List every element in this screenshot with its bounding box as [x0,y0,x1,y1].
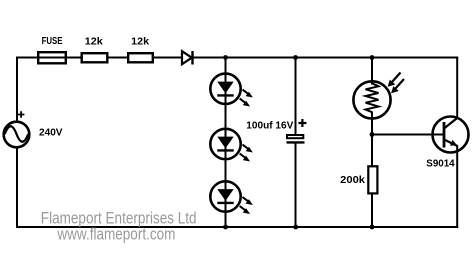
wire resistor to bottom rail [371,194,373,227]
svg-text:240V: 240V [39,128,63,139]
svg-text:www.flameport.com: www.flameport.com [57,225,176,244]
ac source V1 [4,122,30,148]
svg-text:12k: 12k [85,36,103,47]
wire LDR to resistor [371,112,373,167]
node dot bottom resistor branch [370,225,375,230]
svg-text:100uf 16V: 100uf 16V [246,121,293,132]
capacitor C1 [287,135,305,142]
node dot base junction [370,132,375,137]
wire base from junction to transistor [372,134,444,136]
wire LED branch vertical [225,58,227,228]
node dot bottom LED branch [223,225,228,230]
wire bottom rail [17,226,458,228]
transistor Q1 S9014 [433,117,469,153]
wire capacitor branch upper [295,58,297,135]
plus polarity mark at source [18,111,25,118]
wire top rail [17,57,458,59]
diode D1 [182,51,193,65]
svg-text:12k: 12k [131,36,149,47]
node dot top LDR branch [370,55,375,60]
fuse FUSE [38,52,66,63]
resistor R1 12k [82,53,108,62]
resistor R4 200k [368,166,377,193]
svg-text:S9014: S9014 [426,158,455,169]
wire emitter vertical [456,146,458,229]
wire collector vertical [456,57,458,119]
wire capacitor branch lower [295,142,297,227]
wire left vertical lower [16,149,18,229]
LED D4 [210,181,253,214]
plus polarity mark at capacitor [298,119,306,127]
LED D2 [210,74,253,107]
node dot top LED branch [223,55,228,60]
LED D3 [210,129,253,162]
wire left vertical upper [16,57,18,122]
svg-text:FUSE: FUSE [42,36,63,47]
svg-text:200k: 200k [340,175,365,186]
resistor R2 12k [128,53,153,62]
node dot bottom capacitor branch [293,225,298,230]
LDR R3 [353,73,404,119]
node dot top capacitor branch [293,55,298,60]
wire LDR branch upper [371,58,373,85]
